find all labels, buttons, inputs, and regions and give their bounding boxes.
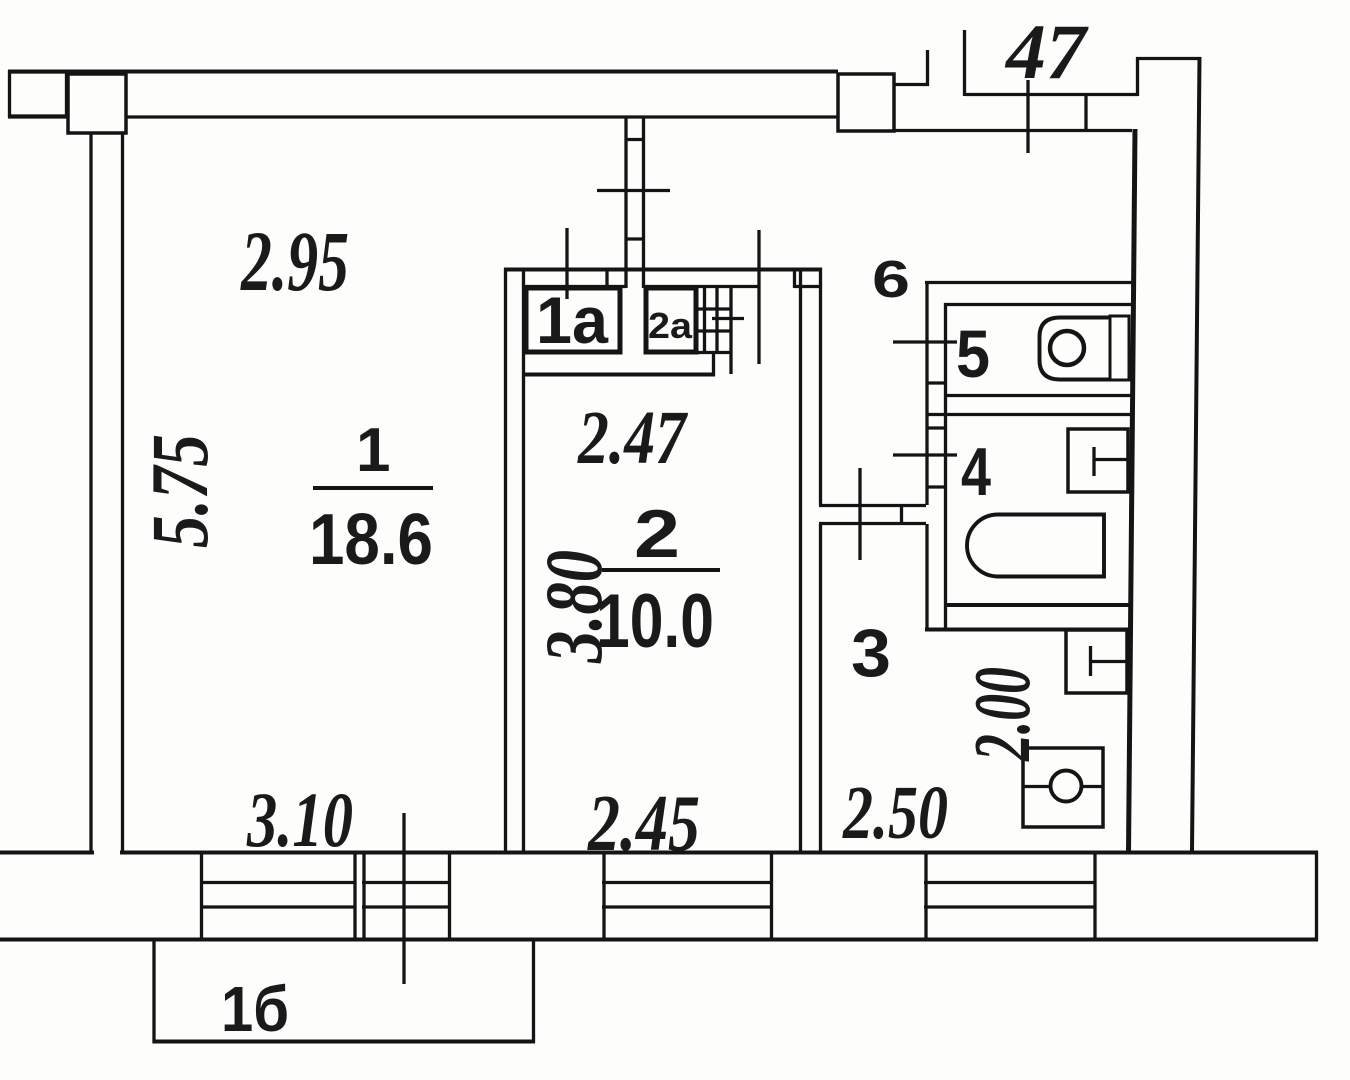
vent tick across bath wall 2	[893, 453, 957, 456]
pilaster top-right	[838, 74, 894, 131]
vent column line c	[729, 286, 732, 374]
svg-text:47: 47	[1004, 8, 1089, 95]
bathroom sink tap stem	[1092, 447, 1095, 476]
band connector at niche	[793, 268, 796, 288]
vent tick above closet 1a	[565, 228, 568, 299]
bath wall tie 3	[926, 485, 947, 488]
svg-text:2.00: 2.00	[959, 667, 1047, 762]
room divider wall upper left line	[624, 117, 627, 288]
balcony left edge	[152, 941, 155, 1043]
room 2 underline	[602, 568, 720, 572]
kitchen sink box	[1066, 630, 1127, 693]
svg-text:4: 4	[961, 434, 991, 510]
top-left wall end box	[10, 72, 67, 116]
corridor wall right line	[819, 268, 822, 505]
svg-text:5.75: 5.75	[134, 434, 225, 548]
vent tick vertical right of 2a	[757, 230, 760, 364]
svg-text:5: 5	[956, 317, 990, 392]
bathtub	[967, 515, 1104, 577]
balcony door left jamb	[362, 852, 365, 940]
svg-text:1a: 1a	[536, 283, 609, 357]
balcony right edge	[532, 941, 535, 1043]
svg-text:2.50: 2.50	[842, 771, 948, 855]
inner right wall	[1129, 129, 1136, 853]
left wall outer line	[89, 132, 92, 854]
closet 1a box	[526, 288, 620, 352]
closet block left wall inner	[522, 268, 525, 853]
right wall upper vertical	[1136, 57, 1139, 96]
balcony door pane lines	[362, 881, 451, 884]
wall stub horizontal	[894, 83, 929, 86]
toilet bowl	[1040, 318, 1111, 380]
vent column tie 2	[698, 329, 732, 332]
divider wall tie 1	[625, 138, 645, 141]
bottom wall top line	[0, 851, 1318, 855]
toilet cistern	[1110, 316, 1129, 380]
closet block top inner line	[523, 285, 626, 288]
bath wall tie 2	[926, 426, 947, 429]
closet block bottom wall	[523, 373, 715, 377]
kitchen stove circle	[1051, 771, 1082, 802]
svg-text:3: 3	[851, 615, 891, 691]
vent tick across bath wall 1	[893, 340, 957, 343]
vent tick at entry	[1026, 80, 1029, 153]
kitchen top wall lower line	[819, 522, 926, 525]
left wall core gap	[94, 849, 120, 856]
kitchen stove line left	[1023, 785, 1051, 788]
pilaster top-left	[68, 74, 126, 133]
svg-text:2.45: 2.45	[587, 780, 700, 868]
top wall outer line	[8, 70, 838, 74]
svg-text:1: 1	[356, 416, 390, 485]
bottom-right wall edge	[1315, 851, 1318, 941]
vent tick at kitchen door	[858, 468, 861, 560]
window 2 pane lines	[602, 881, 773, 884]
WC top wall outer	[925, 281, 1135, 284]
WC top wall inner	[944, 303, 1134, 306]
window 1 left jamb	[200, 852, 203, 940]
svg-text:2a: 2a	[648, 305, 693, 346]
closet block top wall	[504, 268, 822, 272]
kitchen top wall upper line	[819, 504, 926, 507]
kitchen sink tap bar	[1090, 660, 1127, 663]
entry wall connector	[1084, 93, 1087, 132]
window 3 pane lines	[924, 881, 1096, 884]
window 2 right jamb	[770, 852, 773, 940]
vent column tie 1	[698, 307, 732, 310]
vent column line b	[715, 286, 718, 353]
window 1 right jamb	[353, 852, 356, 940]
vent column tie 3	[698, 351, 732, 354]
corridor wall left line	[799, 268, 802, 853]
window 2 left jamb	[602, 852, 605, 940]
window 3 right jamb	[1093, 852, 1096, 940]
WC bottom wall upper line	[944, 394, 1133, 397]
bath block left wall inner	[944, 303, 947, 631]
top wall inner line	[8, 115, 838, 118]
divider wall tie 2	[625, 237, 645, 240]
svg-text:2.47: 2.47	[577, 396, 688, 480]
window 1 pane lines	[200, 881, 356, 884]
bath block left wall outer	[925, 281, 928, 505]
vent tick horizontal near 2a	[712, 317, 744, 320]
closet top inner line segment 3	[794, 285, 822, 288]
svg-text:3.80: 3.80	[528, 550, 619, 664]
closet block bottom corner	[712, 353, 715, 376]
bath wall tie 1	[926, 381, 947, 384]
entry wall lower line	[894, 129, 1132, 132]
wall stub vertical	[926, 50, 929, 86]
bath block bottom wall	[925, 628, 1131, 632]
window 3 left jamb	[924, 852, 927, 940]
svg-text:2: 2	[634, 496, 680, 572]
left wall inner line	[121, 132, 124, 854]
balcony door right jamb	[448, 852, 451, 940]
wall stub vertical 2	[963, 30, 966, 96]
right outer wall	[1192, 57, 1200, 851]
room 1 underline	[313, 486, 433, 490]
room divider wall upper right line	[642, 117, 645, 288]
entry wall upper line	[965, 93, 1138, 96]
kitchen sink tap stem	[1089, 646, 1092, 676]
closet 2a box	[646, 288, 696, 352]
bathroom inner bottom wall	[945, 603, 1132, 607]
kitchen stove line right	[1081, 785, 1103, 788]
svg-text:1б: 1б	[221, 973, 289, 1045]
bottom wall bottom line	[0, 938, 1318, 942]
right wall top cap	[1136, 57, 1201, 60]
toilet circle	[1050, 331, 1084, 365]
bathroom sink box	[1068, 429, 1128, 492]
vent column line a	[703, 286, 706, 353]
svg-text:18.6: 18.6	[309, 500, 433, 580]
vent tick across divider	[597, 189, 670, 192]
svg-text:2.95: 2.95	[240, 213, 349, 309]
closet top inner line segment 2	[643, 285, 758, 288]
kitchen door jamb	[900, 504, 903, 525]
kitchen stove box	[1023, 748, 1103, 827]
closet block left wall outer	[504, 268, 507, 853]
bathroom sink tap bar	[1094, 458, 1129, 461]
svg-text:6: 6	[872, 251, 910, 309]
band connector above 1a	[605, 268, 608, 288]
WC bottom wall lower line	[927, 413, 1133, 416]
svg-text:3.10: 3.10	[246, 776, 353, 863]
balcony bottom edge	[153, 1040, 536, 1044]
balcony door tick	[402, 813, 405, 984]
